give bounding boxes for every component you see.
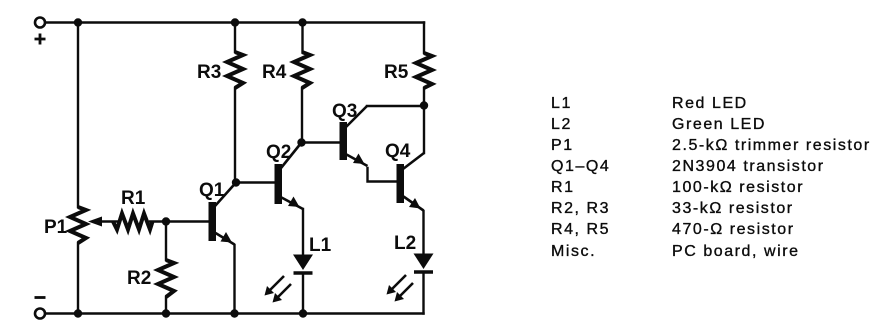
- wire Q3 collector horizontal: [367, 105, 424, 107]
- wire R2 bottom lead: [165, 297, 167, 314]
- node top rail R4: [298, 18, 306, 26]
- svg-text:Q4: Q4: [385, 141, 411, 162]
- transistor Q4: [397, 153, 425, 211]
- potentiometer P1 wiper arrowhead: [88, 217, 102, 227]
- transistor Q1: [209, 183, 237, 245]
- wire top rail: [45, 21, 424, 23]
- svg-text:Q2: Q2: [266, 142, 291, 163]
- LED L2: [387, 254, 434, 302]
- wire R2 top lead: [165, 222, 167, 261]
- wire Q2 emitter to L1: [302, 209, 304, 255]
- node R4 Q2 collector: [297, 138, 305, 146]
- wire Q1 emitter to bottom rail: [233, 245, 235, 314]
- wire R3 bottom lead to node: [234, 88, 236, 183]
- minus sign: [35, 296, 46, 299]
- wire R1 right lead and Q1 base: [150, 220, 209, 222]
- node R3 Q1 collector: [232, 178, 240, 186]
- resistor R5: [416, 53, 432, 88]
- potentiometer P1: [70, 207, 86, 243]
- svg-text:R3: R3: [197, 62, 221, 83]
- plus sign: [35, 34, 46, 45]
- svg-text:P1: P1: [44, 217, 68, 238]
- wire wiper to R1 left: [96, 220, 118, 222]
- parts list descriptions column: [672, 93, 871, 262]
- wire R5 top lead: [423, 23, 425, 54]
- wire L1 to bottom rail: [302, 274, 304, 314]
- wire P1 column bottom: [77, 243, 79, 314]
- node R1 R2 base: [162, 217, 170, 225]
- svg-text:L1: L1: [309, 235, 332, 256]
- transistor Q3: [340, 106, 368, 166]
- svg-text:R2: R2: [127, 268, 151, 289]
- resistor R3: [227, 52, 243, 88]
- wire R3 column top lead: [234, 23, 236, 53]
- node top rail P1: [74, 18, 82, 26]
- node top rail R3: [231, 18, 239, 26]
- transistor Q2: [275, 143, 304, 210]
- wire R5 node down to Q4 collector: [423, 106, 425, 154]
- wire P1 column top: [77, 23, 79, 208]
- resistor R1: [113, 214, 153, 230]
- svg-text:R5: R5: [384, 62, 409, 83]
- resistor R2: [158, 260, 174, 297]
- node bottom rail R2: [162, 309, 170, 317]
- svg-text:R1: R1: [121, 188, 146, 209]
- wire Q4 emitter to L2: [422, 211, 424, 254]
- node R5 collectors: [420, 101, 428, 109]
- resistor R4: [294, 52, 310, 88]
- wire L2 to bottom rail: [422, 273, 424, 314]
- wire Q4 base from Q3 emitter: [368, 168, 397, 182]
- node bottom rail Q1 emitter: [230, 309, 238, 317]
- node bottom rail P1: [74, 309, 82, 317]
- svg-text:L2: L2: [394, 233, 416, 254]
- LED L1: [265, 255, 314, 303]
- wire bottom rail: [45, 312, 424, 314]
- wire R4 column top lead: [301, 23, 303, 53]
- wire R5 bottom lead: [423, 88, 425, 106]
- parts list designators column: [551, 93, 610, 262]
- svg-text:Q3: Q3: [332, 101, 357, 122]
- terminal +: [35, 18, 45, 28]
- wire R4 bottom lead to node: [301, 88, 303, 143]
- wire Q3 base from node: [302, 141, 340, 143]
- terminal -: [35, 309, 45, 319]
- node bottom rail L1: [299, 309, 307, 317]
- wire Q2 base from node: [236, 181, 275, 183]
- svg-text:Q1: Q1: [199, 180, 225, 201]
- svg-text:R4: R4: [262, 62, 287, 83]
